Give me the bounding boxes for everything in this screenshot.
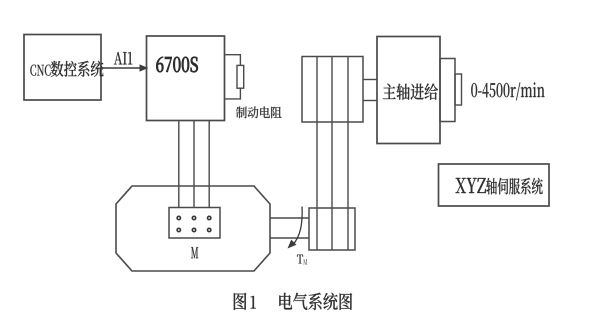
terminal dots (6 studs) bbox=[177, 216, 211, 231]
spindle shaft step (medium) bbox=[440, 59, 455, 122]
shaft motor to gearbox (top line) bbox=[270, 217, 309, 219]
coupler bar bottom line bbox=[363, 100, 377, 102]
belt drive upper block bbox=[302, 57, 363, 123]
belt line 3 bbox=[347, 57, 349, 251]
wire W phase 6700S to motor bbox=[208, 121, 210, 209]
resistor 制动电阻 body bbox=[237, 65, 244, 88]
shaft motor to gearbox (bottom line) bbox=[270, 237, 309, 239]
label 制动电阻 bbox=[236, 106, 281, 118]
box 主轴进给 spindle feed bbox=[377, 37, 440, 144]
torque arrow TM (arc) bbox=[288, 207, 303, 249]
coupler bar top line (belt block to spindle box) bbox=[363, 79, 377, 81]
belt drive lower block bbox=[309, 208, 355, 250]
label AI1 bbox=[114, 52, 132, 64]
caption 图1 电气系统图 bbox=[234, 293, 352, 310]
wire arrow AI1: CNC to 6700S bbox=[101, 64, 148, 71]
wire brake-resistor loop top bbox=[225, 55, 241, 66]
label 0-4500r/min bbox=[471, 82, 544, 100]
spindle shaft step (small) bbox=[455, 74, 462, 105]
belt line 2 bbox=[331, 57, 333, 251]
box 6700S inverter bbox=[147, 36, 225, 121]
label M (motor) bbox=[191, 247, 198, 258]
wire U phase 6700S to motor bbox=[178, 121, 180, 209]
wire brake-resistor loop bottom bbox=[225, 88, 241, 99]
box XYZ轴伺服系统 bbox=[439, 164, 550, 206]
belt line 1 bbox=[316, 57, 318, 251]
box CNC数控系统 bbox=[24, 35, 103, 101]
motor M body (octagon) bbox=[116, 186, 270, 271]
motor terminal box bbox=[169, 208, 220, 239]
label TM (torque) bbox=[297, 255, 307, 265]
wire V phase 6700S to motor bbox=[193, 121, 195, 209]
